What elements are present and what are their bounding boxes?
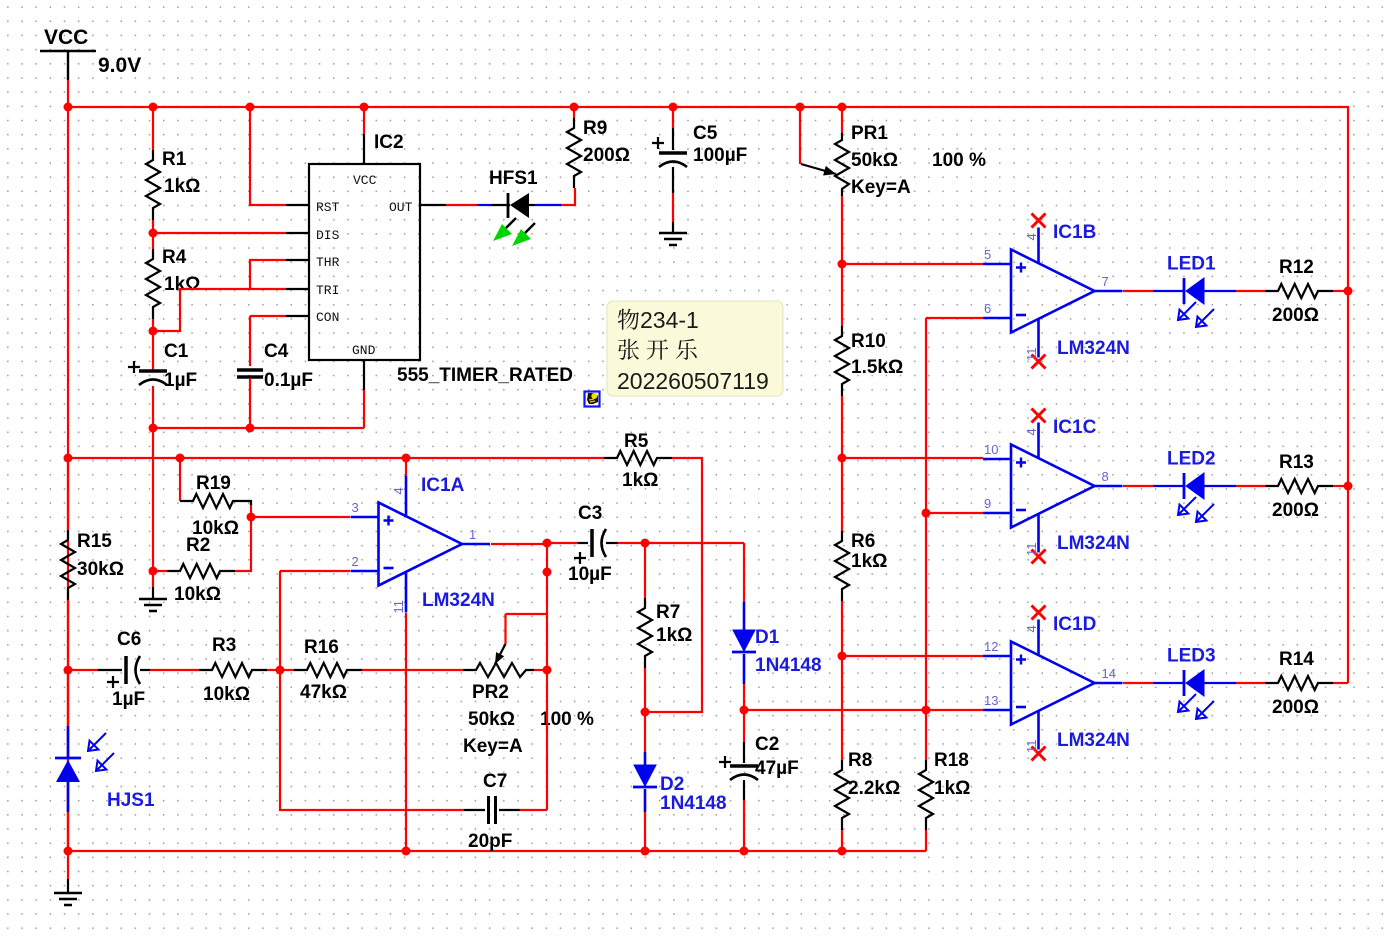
svg-text:200Ω: 200Ω bbox=[583, 145, 630, 166]
junction bbox=[176, 454, 185, 463]
wire pin6 net bbox=[926, 317, 983, 319]
wire bbox=[672, 107, 674, 128]
wire bbox=[362, 669, 463, 671]
svg-text:2.2kΩ: 2.2kΩ bbox=[848, 778, 900, 799]
svg-text:HJS1: HJS1 bbox=[107, 790, 155, 811]
resistor R8 bbox=[835, 760, 849, 830]
svg-text:R5: R5 bbox=[624, 431, 649, 452]
svg-text:C6: C6 bbox=[117, 629, 141, 650]
wire bbox=[841, 830, 843, 851]
svg-text:LM324N: LM324N bbox=[1057, 730, 1130, 751]
wire RST net bbox=[250, 107, 286, 205]
wire VCC top rail bbox=[68, 107, 1348, 683]
svg-text:1N4148: 1N4148 bbox=[660, 793, 727, 814]
wire bbox=[405, 458, 407, 476]
wire bbox=[152, 319, 154, 371]
wire bbox=[1333, 682, 1348, 684]
resistor R9 bbox=[567, 118, 581, 188]
wire bbox=[547, 542, 578, 544]
svg-text:1.5kΩ: 1.5kΩ bbox=[851, 357, 903, 378]
resistor R19 bbox=[180, 494, 248, 508]
arrows LED2 emit bbox=[1178, 497, 1196, 515]
wire bbox=[534, 669, 547, 671]
wire VCC pin bbox=[363, 107, 365, 134]
svg-text:RST: RST bbox=[316, 200, 340, 215]
wire bbox=[1236, 682, 1265, 684]
junction bbox=[740, 847, 749, 856]
svg-text:4: 4 bbox=[1024, 428, 1039, 435]
svg-text:Key=A: Key=A bbox=[463, 736, 523, 757]
arrows HJS1 receive bbox=[88, 733, 106, 751]
svg-text:C7: C7 bbox=[483, 771, 507, 792]
svg-text:Key=A: Key=A bbox=[851, 177, 911, 198]
arrows LED3 emit bbox=[1178, 694, 1196, 712]
junction bbox=[838, 847, 847, 856]
svg-text:C1: C1 bbox=[164, 341, 189, 362]
svg-text:R2: R2 bbox=[186, 535, 210, 556]
svg-text:R12: R12 bbox=[1279, 257, 1314, 278]
wire bbox=[249, 378, 251, 428]
wire bbox=[477, 204, 491, 206]
op-amp IC1D bbox=[1011, 642, 1095, 725]
wire bbox=[841, 196, 843, 264]
capacitor C7 bbox=[464, 809, 485, 811]
svg-text:LM324N: LM324N bbox=[1057, 533, 1130, 554]
svg-text:R4: R4 bbox=[162, 247, 187, 268]
LED HJS1 bbox=[67, 726, 70, 758]
wire bbox=[841, 107, 843, 133]
svg-text:10kΩ: 10kΩ bbox=[203, 684, 250, 705]
wire bottom rail bbox=[68, 850, 926, 852]
svg-text:12: 12 bbox=[984, 639, 998, 654]
wire bbox=[67, 458, 69, 530]
svg-text:LED1: LED1 bbox=[1167, 254, 1216, 275]
wire bbox=[535, 204, 561, 206]
wire R2 left bbox=[153, 570, 167, 572]
wire bbox=[1123, 485, 1153, 487]
svg-text:4: 4 bbox=[1024, 625, 1039, 632]
resistor R2 bbox=[167, 564, 235, 578]
capacitor C2 bbox=[743, 742, 745, 763]
svg-text:2: 2 bbox=[352, 554, 359, 569]
svg-text:1kΩ: 1kΩ bbox=[164, 274, 200, 295]
potentiometer PR2 bbox=[463, 663, 534, 677]
power VCC symbol bbox=[40, 51, 96, 80]
resistor R18 bbox=[919, 760, 933, 830]
svg-text:R7: R7 bbox=[656, 602, 680, 623]
wire bbox=[1204, 682, 1236, 684]
wire bbox=[67, 812, 69, 851]
svg-text:LM324N: LM324N bbox=[1057, 338, 1130, 359]
wire feedback net bbox=[280, 571, 464, 810]
wire TRI net bbox=[153, 289, 286, 331]
svg-text:C3: C3 bbox=[578, 503, 602, 524]
junction bbox=[838, 652, 847, 661]
wire bbox=[1333, 485, 1348, 487]
wire CON net bbox=[250, 316, 286, 366]
wire bbox=[267, 669, 280, 671]
junction bbox=[149, 424, 158, 433]
svg-text:R16: R16 bbox=[304, 637, 339, 658]
svg-text:1kΩ: 1kΩ bbox=[851, 551, 887, 572]
wire bbox=[1204, 290, 1236, 292]
capacitor C6 bbox=[98, 669, 122, 671]
junction bbox=[149, 327, 158, 336]
junction bbox=[149, 229, 158, 238]
junction bbox=[402, 454, 411, 463]
svg-text:4: 4 bbox=[1024, 233, 1039, 240]
svg-text:R10: R10 bbox=[851, 331, 886, 352]
svg-text:50kΩ: 50kΩ bbox=[851, 150, 898, 171]
wire bbox=[644, 543, 646, 598]
svg-text:1kΩ: 1kΩ bbox=[164, 176, 200, 197]
ground bbox=[67, 851, 69, 879]
junction bbox=[149, 103, 158, 112]
arrows HFS1 emit bbox=[506, 218, 516, 228]
svg-text:7: 7 bbox=[1102, 274, 1109, 289]
svg-text:3: 3 bbox=[352, 500, 359, 515]
svg-text:9.0V: 9.0V bbox=[98, 54, 141, 77]
svg-text:20pF: 20pF bbox=[468, 831, 512, 852]
svg-text:13: 13 bbox=[984, 693, 998, 708]
resistor R12 bbox=[1265, 284, 1333, 298]
svg-text:R18: R18 bbox=[934, 750, 969, 771]
LED LED1 bbox=[1183, 278, 1186, 304]
svg-text:C4: C4 bbox=[264, 341, 289, 362]
wire bbox=[743, 800, 745, 851]
svg-text:R9: R9 bbox=[583, 118, 607, 139]
wire bbox=[1204, 485, 1236, 487]
junction bbox=[276, 666, 285, 675]
svg-text:30kΩ: 30kΩ bbox=[77, 559, 124, 580]
junction bbox=[922, 509, 931, 518]
junction bbox=[838, 103, 847, 112]
svg-text:R19: R19 bbox=[196, 473, 231, 494]
svg-text:202260507119: 202260507119 bbox=[617, 368, 769, 394]
svg-text:1kΩ: 1kΩ bbox=[934, 778, 970, 799]
svg-text:D1: D1 bbox=[755, 627, 780, 648]
svg-text:11: 11 bbox=[391, 600, 406, 614]
wire bbox=[152, 428, 154, 587]
wire bbox=[644, 712, 646, 752]
svg-text:1µF: 1µF bbox=[112, 689, 145, 710]
junction bbox=[64, 454, 73, 463]
wire bbox=[1153, 682, 1183, 684]
resistor R10 bbox=[835, 326, 849, 396]
lead bbox=[672, 167, 674, 193]
svg-text:C2: C2 bbox=[755, 734, 779, 755]
junction bbox=[246, 103, 255, 112]
ground bbox=[152, 587, 154, 599]
wire bbox=[841, 396, 843, 531]
junction bbox=[796, 103, 805, 112]
junction bbox=[838, 454, 847, 463]
svg-text:VCC: VCC bbox=[44, 26, 88, 49]
op-amp IC1A bbox=[379, 503, 463, 586]
junction bbox=[641, 847, 650, 856]
svg-text:1kΩ: 1kΩ bbox=[656, 625, 692, 646]
wire GND pin bbox=[363, 390, 365, 428]
junction bbox=[543, 539, 552, 548]
capacitor C5 bbox=[659, 151, 687, 155]
resistor R4 bbox=[146, 249, 160, 319]
wire pin10 net bbox=[842, 457, 983, 459]
wire bbox=[644, 668, 646, 712]
svg-text:IC1C: IC1C bbox=[1053, 417, 1097, 438]
wire left rail bbox=[67, 107, 69, 851]
svg-text:555_TIMER_RATED: 555_TIMER_RATED bbox=[397, 365, 573, 386]
svg-text:6: 6 bbox=[984, 301, 991, 316]
svg-text:R13: R13 bbox=[1279, 452, 1314, 473]
wire bbox=[67, 600, 69, 851]
wire bbox=[573, 107, 575, 118]
svg-text:R15: R15 bbox=[77, 531, 112, 552]
svg-text:9: 9 bbox=[984, 496, 991, 511]
wire wiper net bbox=[506, 613, 548, 615]
svg-text:IC2: IC2 bbox=[374, 132, 404, 153]
svg-text:10kΩ: 10kΩ bbox=[174, 584, 221, 605]
svg-text:1kΩ: 1kΩ bbox=[622, 470, 658, 491]
resistor R6 bbox=[835, 531, 849, 601]
svg-text:47µF: 47µF bbox=[755, 758, 799, 779]
LED LED2 bbox=[1183, 473, 1186, 499]
svg-text:PR2: PR2 bbox=[472, 682, 509, 703]
svg-text:OUT: OUT bbox=[389, 200, 413, 215]
diode D1 bbox=[743, 602, 746, 630]
svg-text:C5: C5 bbox=[693, 123, 718, 144]
wire bbox=[1236, 485, 1265, 487]
junction bbox=[641, 539, 650, 548]
wire bbox=[280, 669, 294, 671]
svg-text:10: 10 bbox=[984, 442, 998, 457]
svg-text:1: 1 bbox=[469, 527, 476, 542]
wire pin13 net bbox=[744, 709, 983, 711]
svg-text:1µF: 1µF bbox=[164, 370, 197, 391]
wire OUT net bbox=[446, 204, 477, 206]
junction bbox=[64, 666, 73, 675]
svg-text:R6: R6 bbox=[851, 531, 875, 552]
wire bbox=[1123, 290, 1153, 292]
lead bbox=[672, 128, 674, 150]
svg-text:10µF: 10µF bbox=[568, 564, 612, 585]
svg-text:200Ω: 200Ω bbox=[1272, 305, 1319, 326]
svg-text:LM324N: LM324N bbox=[422, 590, 495, 611]
note icon bbox=[585, 392, 600, 407]
capacitor C1 bbox=[139, 369, 167, 373]
wire pin2 net bbox=[280, 570, 350, 572]
wire bbox=[561, 188, 575, 205]
wire bbox=[672, 193, 674, 222]
note annotation bbox=[607, 301, 783, 396]
op-amp IC1C bbox=[1011, 445, 1095, 528]
wire bbox=[743, 684, 745, 710]
svg-text:5: 5 bbox=[984, 247, 991, 262]
resistor R3 bbox=[199, 663, 267, 677]
svg-text:PR1: PR1 bbox=[851, 123, 888, 144]
wire bbox=[152, 220, 154, 249]
resistor R15 bbox=[61, 530, 75, 600]
svg-text:200Ω: 200Ω bbox=[1272, 500, 1319, 521]
svg-text:IC1B: IC1B bbox=[1053, 222, 1096, 243]
wire bbox=[644, 812, 646, 851]
junction bbox=[669, 103, 678, 112]
wire bbox=[743, 710, 745, 742]
wire bbox=[841, 264, 843, 326]
junction bbox=[922, 706, 931, 715]
wire bbox=[1333, 290, 1348, 292]
op-amp IC1B bbox=[1011, 250, 1095, 333]
wire bbox=[152, 107, 154, 150]
resistor R5 bbox=[604, 451, 672, 465]
svg-text:50kΩ: 50kΩ bbox=[468, 709, 515, 730]
wire bbox=[1236, 290, 1265, 292]
svg-text:TRI: TRI bbox=[316, 283, 339, 298]
junction bbox=[1344, 287, 1353, 296]
wire DIS net bbox=[153, 232, 286, 234]
resistor R7 bbox=[638, 598, 652, 668]
svg-text:11: 11 bbox=[1024, 740, 1039, 754]
diode D2 bbox=[644, 752, 647, 765]
svg-text:VCC: VCC bbox=[353, 173, 377, 188]
LED HFS1 bbox=[491, 204, 510, 206]
resistor R14 bbox=[1265, 676, 1333, 690]
capacitor C3 bbox=[578, 542, 588, 544]
wire bbox=[841, 601, 843, 760]
wire bbox=[68, 669, 98, 671]
wire pin9 net bbox=[926, 512, 983, 514]
arrows LED1 emit bbox=[1178, 302, 1196, 320]
svg-text:R8: R8 bbox=[848, 750, 872, 771]
junction bbox=[149, 567, 158, 576]
junction bbox=[543, 568, 552, 577]
svg-text:D2: D2 bbox=[660, 774, 684, 795]
svg-text:IC1A: IC1A bbox=[421, 475, 465, 496]
svg-text:LED3: LED3 bbox=[1167, 646, 1216, 667]
svg-text:11: 11 bbox=[1024, 348, 1039, 362]
wire bbox=[152, 386, 154, 428]
svg-text:100µF: 100µF bbox=[693, 145, 747, 166]
svg-text:R1: R1 bbox=[162, 149, 187, 170]
junction bbox=[360, 103, 369, 112]
wire pin12 net bbox=[842, 655, 983, 657]
resistor R13 bbox=[1265, 479, 1333, 493]
svg-text:8: 8 bbox=[1102, 469, 1109, 484]
wire R2 right bend bbox=[235, 517, 251, 571]
junction bbox=[570, 103, 579, 112]
wire out net bbox=[491, 543, 547, 810]
wire bbox=[618, 542, 744, 544]
potentiometer PR1 bbox=[835, 133, 849, 196]
wire gnd net 555 bbox=[153, 427, 364, 429]
555 timer IC2 box bbox=[309, 164, 420, 360]
svg-text:R3: R3 bbox=[212, 635, 236, 656]
wire bbox=[1123, 682, 1153, 684]
junction bbox=[1344, 482, 1353, 491]
svg-text:100 %: 100 % bbox=[932, 150, 986, 171]
pin stubs 555 bbox=[286, 134, 446, 390]
svg-text:IC1D: IC1D bbox=[1053, 614, 1096, 635]
wire bbox=[405, 613, 407, 851]
junction bbox=[641, 708, 650, 717]
wire R19 right bend bbox=[248, 501, 251, 505]
wire bbox=[925, 318, 927, 760]
junction bbox=[543, 666, 552, 675]
wire bbox=[250, 505, 252, 517]
wire pin5 net bbox=[842, 263, 983, 265]
junction bbox=[838, 260, 847, 269]
ground bbox=[672, 222, 674, 233]
wire bbox=[179, 458, 181, 501]
wire bbox=[150, 669, 199, 671]
wire bbox=[67, 670, 69, 726]
junction bbox=[64, 103, 73, 112]
svg-text:CON: CON bbox=[316, 310, 339, 325]
svg-text:R14: R14 bbox=[1279, 649, 1314, 670]
svg-text:GND: GND bbox=[352, 343, 376, 358]
svg-text:11: 11 bbox=[1024, 543, 1039, 557]
LED LED3 bbox=[1183, 670, 1186, 696]
wire bbox=[743, 543, 745, 602]
wire mid rail bbox=[68, 458, 702, 712]
junction bbox=[246, 424, 255, 433]
svg-text:LED2: LED2 bbox=[1167, 449, 1216, 470]
junction bbox=[247, 513, 256, 522]
resistor R1 bbox=[146, 150, 160, 220]
svg-text:HFS1: HFS1 bbox=[489, 168, 538, 189]
junction bbox=[64, 847, 73, 856]
junction bbox=[740, 706, 749, 715]
wire bbox=[925, 830, 927, 851]
junction bbox=[402, 847, 411, 856]
svg-text:14: 14 bbox=[1102, 666, 1116, 681]
svg-text:0.1µF: 0.1µF bbox=[264, 370, 313, 391]
wire bbox=[1153, 485, 1183, 487]
resistor R16 bbox=[294, 663, 362, 677]
svg-text:1N4148: 1N4148 bbox=[755, 655, 822, 676]
svg-text:DIS: DIS bbox=[316, 228, 340, 243]
capacitor C4 bbox=[237, 368, 263, 372]
wire pin3 net bbox=[251, 516, 350, 518]
svg-text:THR: THR bbox=[316, 255, 340, 270]
wire bbox=[1153, 290, 1183, 292]
svg-text:47kΩ: 47kΩ bbox=[300, 682, 347, 703]
svg-text:200Ω: 200Ω bbox=[1272, 697, 1319, 718]
svg-text:234-1: 234-1 bbox=[640, 307, 699, 333]
svg-text:4: 4 bbox=[391, 487, 406, 494]
wire THR net bbox=[250, 260, 286, 289]
